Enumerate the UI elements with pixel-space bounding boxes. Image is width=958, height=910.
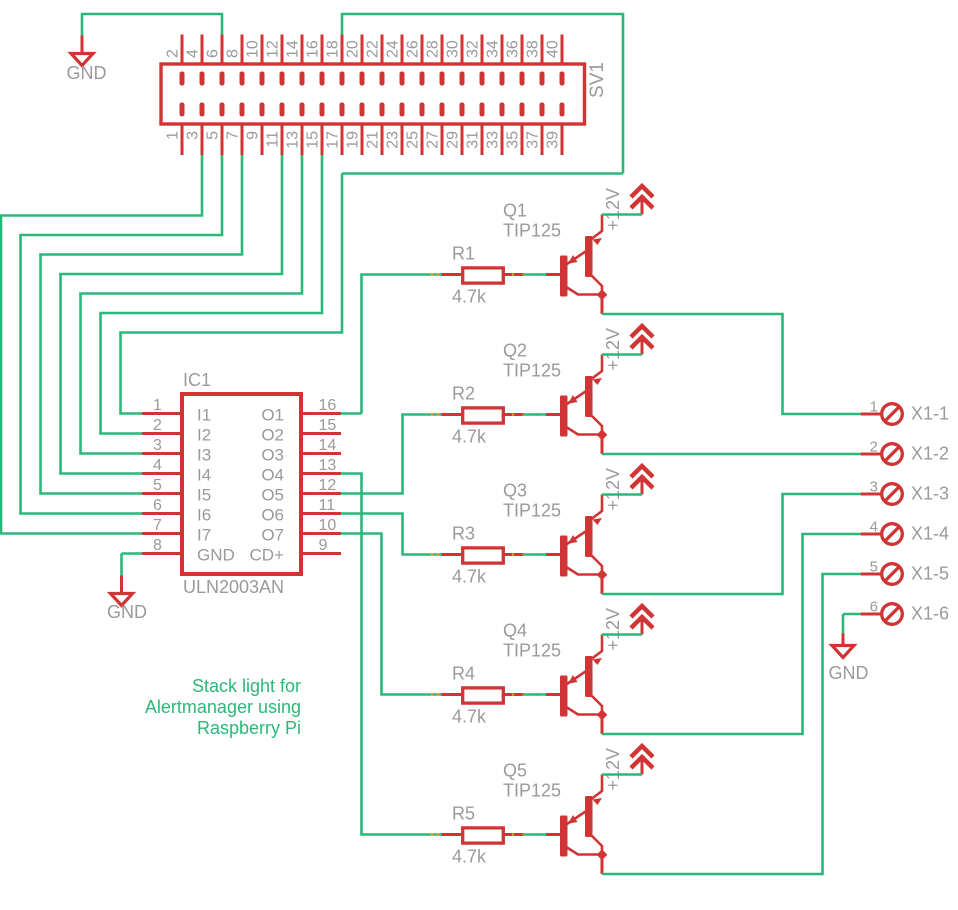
SV1 pin 2 (top) — [180, 35, 185, 86]
svg-text:34: 34 — [485, 40, 502, 58]
wire net X1-6 down to GND — [842, 614, 845, 634]
svg-text:4.7k: 4.7k — [452, 427, 487, 447]
svg-text:11: 11 — [319, 497, 336, 514]
svg-text:4.7k: 4.7k — [452, 567, 487, 587]
svg-text:GND: GND — [107, 602, 147, 622]
svg-text:1: 1 — [153, 397, 162, 414]
svg-text:5: 5 — [205, 131, 222, 140]
wire net down to IC1 pin 1 — [121, 174, 343, 414]
SV1 pin 16 (top) — [320, 35, 325, 86]
transistor Q2 TIP125 (PNP darlington) — [546, 355, 607, 455]
svg-text:9: 9 — [245, 131, 262, 140]
svg-text:28: 28 — [425, 40, 442, 58]
svg-text:1: 1 — [165, 131, 182, 140]
resistor R5 4.7k — [431, 828, 539, 843]
SV1 pin 29 (bottom) — [460, 103, 465, 156]
wire net SV1 pin 13 to IC1 pin 3 — [81, 155, 303, 454]
wire net horizontal into SV1 pin18 column — [342, 172, 623, 175]
transistor Q1 TIP125 (PNP darlington) — [546, 215, 607, 315]
svg-text:X1-1: X1-1 — [911, 404, 949, 424]
terminal X1-4 — [861, 524, 902, 545]
SV1 pin 12 (top) — [280, 35, 285, 86]
svg-text:17: 17 — [325, 131, 342, 149]
svg-text:40: 40 — [545, 40, 562, 58]
wire net +12V to emitter (row Q1) — [602, 213, 642, 216]
svg-text:TIP125: TIP125 — [503, 781, 561, 801]
SV1 pin 18 (top) — [340, 35, 345, 86]
wire net +12V to emitter (row Q4) — [602, 633, 642, 636]
wire net IC1 pin 16 up to R1 — [362, 275, 442, 414]
SV1 pin 34 (top) — [500, 35, 505, 86]
wire net R1 to Q1 base — [524, 273, 547, 276]
SV1 pin 31 (bottom) — [480, 103, 485, 156]
svg-text:8: 8 — [153, 537, 162, 554]
svg-text:X1-5: X1-5 — [911, 564, 949, 584]
wire net Q2 collector to X1-2 — [602, 453, 862, 456]
svg-text:O2: O2 — [261, 426, 284, 445]
svg-text:11: 11 — [265, 131, 282, 148]
svg-text:2: 2 — [165, 49, 182, 58]
wire net SV1 pin 11 to IC1 pin 4 — [61, 155, 283, 474]
svg-text:TIP125: TIP125 — [503, 501, 561, 521]
svg-text:1: 1 — [870, 399, 878, 416]
IC1 pin 16 (right) — [301, 412, 341, 415]
svg-text:I4: I4 — [197, 466, 211, 485]
svg-text:X1-4: X1-4 — [911, 524, 949, 544]
IC1 pin 12 (right) — [301, 492, 341, 495]
svg-text:R2: R2 — [452, 384, 475, 404]
svg-text:3: 3 — [185, 131, 202, 140]
resistor R4 4.7k — [431, 688, 539, 703]
svg-text:22: 22 — [365, 40, 382, 58]
svg-text:23: 23 — [385, 131, 402, 149]
svg-text:10: 10 — [245, 40, 262, 58]
svg-text:R4: R4 — [452, 664, 475, 684]
svg-text:2: 2 — [870, 439, 878, 456]
svg-text:R5: R5 — [452, 804, 475, 824]
svg-text:10: 10 — [319, 517, 337, 534]
+12V supply symbol (row Q4) — [631, 606, 653, 635]
wire net R3 to Q3 base — [524, 553, 547, 556]
SV1 pin 8 (top) — [240, 35, 245, 86]
wire net SV1 pin 7 to IC1 pin 5 — [41, 155, 243, 494]
IC1 pin 2 (left) — [142, 432, 182, 435]
wire net Q4 collector to X1-4 — [602, 534, 862, 734]
svg-text:CD+: CD+ — [250, 546, 285, 565]
svg-text:8: 8 — [225, 49, 242, 58]
wire net SV1 pin 5 to IC1 pin 6 — [21, 155, 223, 514]
svg-text:38: 38 — [525, 40, 542, 58]
SV1 pin 21 (bottom) — [380, 103, 385, 156]
+12V supply symbol (row Q5) — [631, 746, 653, 775]
svg-text:21: 21 — [365, 131, 382, 149]
wire net IC1 pin 16 stub — [341, 412, 362, 415]
SV1 pin 6 (top) — [220, 35, 225, 86]
svg-text:15: 15 — [305, 131, 322, 149]
svg-text:6: 6 — [205, 49, 222, 58]
svg-text:GND: GND — [67, 63, 107, 83]
terminal X1-2 — [861, 444, 902, 465]
svg-text:19: 19 — [345, 131, 362, 149]
IC1 pin 5 (left) — [142, 492, 182, 495]
SV1 pin 24 (top) — [400, 35, 405, 86]
SV1 pin 39 (bottom) — [560, 103, 565, 156]
SV1 pin 30 (top) — [460, 35, 465, 86]
svg-text:29: 29 — [445, 131, 462, 149]
svg-text:O6: O6 — [261, 506, 284, 525]
+12V supply symbol (row Q1) — [631, 186, 653, 215]
SV1 pin 40 (top) — [560, 35, 565, 86]
svg-text:4: 4 — [870, 519, 878, 536]
SV1 pin 25 (bottom) — [420, 103, 425, 156]
SV1 pin 4 (top) — [200, 35, 205, 86]
wire net Q3 collector to X1-3 — [602, 494, 862, 594]
connector SV1 body — [161, 64, 585, 124]
svg-text:+12V: +12V — [603, 188, 623, 231]
svg-text:13: 13 — [319, 457, 337, 474]
svg-text:30: 30 — [445, 40, 462, 58]
svg-text:12: 12 — [265, 40, 282, 58]
transistor Q5 TIP125 (PNP darlington) — [546, 775, 607, 875]
svg-text:O5: O5 — [261, 486, 284, 505]
svg-text:TIP125: TIP125 — [503, 641, 561, 661]
svg-text:O4: O4 — [261, 466, 284, 485]
svg-text:I7: I7 — [197, 526, 211, 545]
svg-text:16: 16 — [305, 40, 322, 58]
svg-text:5: 5 — [870, 559, 878, 576]
svg-text:4.7k: 4.7k — [452, 287, 487, 307]
wire net +12V to emitter (row Q3) — [602, 493, 642, 496]
IC1 pin 7 (left) — [142, 532, 182, 535]
svg-text:3: 3 — [153, 437, 162, 454]
svg-text:I1: I1 — [197, 406, 211, 425]
svg-text:6: 6 — [870, 599, 878, 616]
svg-text:Raspberry Pi: Raspberry Pi — [197, 718, 301, 738]
svg-text:Q2: Q2 — [503, 341, 527, 361]
wire net +12V to emitter (row Q5) — [602, 773, 642, 776]
svg-text:4: 4 — [185, 49, 202, 58]
wire net IC1 pin 8 to GND — [122, 552, 143, 555]
svg-text:Alertmanager using: Alertmanager using — [145, 697, 301, 717]
svg-text:R3: R3 — [452, 524, 475, 544]
wire net SV1 pin 3 to IC1 pin 7 — [1, 155, 202, 534]
resistor R1 4.7k — [431, 268, 539, 283]
svg-text:GND: GND — [829, 663, 869, 683]
svg-text:Q3: Q3 — [503, 481, 527, 501]
svg-text:2: 2 — [153, 417, 162, 434]
svg-text:I2: I2 — [197, 426, 211, 445]
svg-text:+12V: +12V — [603, 328, 623, 371]
svg-text:+12V: +12V — [603, 468, 623, 511]
SV1 pin 1 (bottom) — [180, 103, 185, 156]
terminal X1-1 — [861, 404, 902, 425]
SV1 pin 3 (bottom) — [200, 103, 205, 156]
SV1 pin 32 (top) — [480, 35, 485, 86]
svg-text:27: 27 — [425, 131, 442, 149]
svg-text:18: 18 — [325, 40, 342, 58]
svg-text:Q4: Q4 — [503, 621, 527, 641]
svg-text:32: 32 — [465, 40, 482, 58]
wire net IC1 pin 12 to R2 — [341, 415, 442, 494]
svg-text:15: 15 — [319, 417, 337, 434]
SV1 pin 26 (top) — [420, 35, 425, 86]
wire net IC1 pin 13 to R5 — [341, 474, 442, 835]
IC1 pin 3 (left) — [142, 452, 182, 455]
SV1 pin 11 (bottom) — [280, 103, 285, 156]
svg-text:14: 14 — [319, 437, 337, 454]
IC1 pin 13 (right) — [301, 472, 341, 475]
SV1 pin 35 (bottom) — [520, 103, 525, 156]
svg-text:IC1: IC1 — [183, 370, 211, 390]
terminal X1-5 — [861, 564, 902, 585]
svg-text:I6: I6 — [197, 506, 211, 525]
IC1 pin 11 (right) — [301, 512, 341, 515]
SV1 pin 37 (bottom) — [540, 103, 545, 156]
svg-text:O3: O3 — [261, 446, 284, 465]
svg-text:3: 3 — [870, 479, 878, 496]
svg-text:R1: R1 — [452, 244, 475, 264]
svg-text:36: 36 — [505, 40, 522, 58]
svg-text:GND: GND — [197, 546, 235, 565]
terminal X1-6 — [861, 604, 902, 625]
svg-text:X1-2: X1-2 — [911, 444, 949, 464]
SV1 pin 5 (bottom) — [220, 103, 225, 156]
svg-text:13: 13 — [285, 131, 302, 149]
svg-text:9: 9 — [319, 537, 328, 554]
svg-text:35: 35 — [505, 131, 522, 149]
svg-text:I3: I3 — [197, 446, 211, 465]
svg-text:I5: I5 — [197, 486, 211, 505]
svg-text:16: 16 — [319, 397, 337, 414]
svg-text:+12V: +12V — [603, 748, 623, 791]
svg-text:7: 7 — [225, 131, 242, 140]
SV1 pin 33 (bottom) — [500, 103, 505, 156]
terminal X1-3 — [861, 484, 902, 505]
resistor R3 4.7k — [431, 548, 539, 563]
svg-text:33: 33 — [485, 131, 502, 149]
wire net IC1 pin 10 to R4 — [341, 534, 442, 695]
SV1 pin 22 (top) — [380, 35, 385, 86]
svg-text:X1-6: X1-6 — [911, 604, 949, 624]
wire net +12V to emitter (row Q2) — [602, 353, 642, 356]
svg-text:Q5: Q5 — [503, 761, 527, 781]
svg-text:4.7k: 4.7k — [452, 847, 487, 867]
SV1 pin 23 (bottom) — [400, 103, 405, 156]
SV1 pin 14 (top) — [300, 35, 305, 86]
IC1 pin 8 (left) — [142, 552, 182, 555]
wire net SV1 pin 15 to IC1 pin 2 — [101, 155, 323, 434]
svg-text:O1: O1 — [261, 406, 284, 425]
svg-text:39: 39 — [545, 131, 562, 149]
IC1 pin 15 (right) — [301, 432, 341, 435]
svg-text:+12V: +12V — [603, 608, 623, 651]
svg-text:20: 20 — [345, 40, 362, 58]
svg-text:4: 4 — [153, 457, 162, 474]
IC1 pin 6 (left) — [142, 512, 182, 515]
wire net GND from SV1 pin 6 to GND symbol — [82, 14, 222, 36]
transistor Q4 TIP125 (PNP darlington) — [546, 635, 607, 735]
SV1 pin 7 (bottom) — [240, 103, 245, 156]
svg-text:X1-3: X1-3 — [911, 484, 949, 504]
IC1 pin 1 (left) — [142, 412, 182, 415]
svg-text:5: 5 — [153, 477, 162, 494]
svg-text:7: 7 — [153, 517, 162, 534]
svg-text:25: 25 — [405, 131, 422, 149]
wire net R5 to Q5 base — [524, 833, 547, 836]
SV1 pin 19 (bottom) — [360, 103, 365, 156]
SV1 pin 9 (bottom) — [260, 103, 265, 156]
ground GND (below X1-6) — [832, 634, 854, 658]
IC U1 IC1 ULN2003AN body — [182, 394, 301, 574]
wire net from SV1 pin 18 over the top and down right side — [342, 14, 623, 174]
+12V supply symbol (row Q3) — [631, 466, 653, 495]
svg-text:14: 14 — [285, 40, 302, 58]
wire net IC1 pin 11 to R3 — [341, 514, 442, 555]
SV1 pin 38 (top) — [540, 35, 545, 86]
svg-text:ULN2003AN: ULN2003AN — [183, 577, 284, 597]
svg-text:4.7k: 4.7k — [452, 707, 487, 727]
IC1 pin 9 (right) — [301, 552, 341, 555]
wire net Q5 collector to X1-5 — [602, 574, 862, 874]
svg-text:6: 6 — [153, 497, 162, 514]
SV1 pin 15 (bottom) — [320, 103, 325, 156]
svg-text:37: 37 — [525, 131, 542, 149]
ground GND (top left) — [71, 36, 93, 66]
svg-text:TIP125: TIP125 — [503, 221, 561, 241]
SV1 pin 13 (bottom) — [300, 103, 305, 156]
svg-text:O7: O7 — [261, 526, 284, 545]
SV1 pin 10 (top) — [260, 35, 265, 86]
svg-text:SV1: SV1 — [587, 62, 608, 98]
+12V supply symbol (row Q2) — [631, 326, 653, 355]
svg-text:31: 31 — [465, 131, 482, 149]
SV1 pin 36 (top) — [520, 35, 525, 86]
wire net X1-6 stub — [843, 613, 862, 616]
wire net down to GND symbol — [120, 554, 123, 576]
SV1 pin 27 (bottom) — [440, 103, 445, 156]
wire net R2 to Q2 base — [524, 413, 547, 416]
wire net Q1 collector to X1-1 — [602, 314, 862, 414]
SV1 pin 20 (top) — [360, 35, 365, 86]
IC1 pin 4 (left) — [142, 472, 182, 475]
svg-text:26: 26 — [405, 40, 422, 58]
wire net R4 to Q4 base — [524, 693, 547, 696]
svg-text:12: 12 — [319, 477, 337, 494]
IC1 pin 14 (right) — [301, 452, 341, 455]
svg-text:24: 24 — [385, 40, 402, 58]
svg-text:Stack light for: Stack light for — [192, 676, 301, 696]
SV1 pin 17 (bottom) — [340, 103, 345, 156]
svg-text:Q1: Q1 — [503, 201, 527, 221]
resistor R2 4.7k — [431, 408, 539, 423]
svg-text:TIP125: TIP125 — [503, 361, 561, 381]
annotation text: Stack light for Alertmanager using Raspberry Pi — [145, 676, 301, 738]
SV1 pin 28 (top) — [440, 35, 445, 86]
ground GND (below IC1 pin 8) — [111, 576, 133, 606]
IC1 pin 10 (right) — [301, 532, 341, 535]
transistor Q3 TIP125 (PNP darlington) — [546, 495, 607, 595]
